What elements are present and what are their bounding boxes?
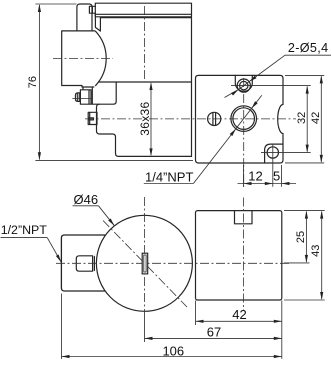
svg-text:32: 32 xyxy=(296,112,308,124)
center slot xyxy=(142,253,148,274)
port axis centerline xyxy=(85,118,296,120)
port flange block xyxy=(196,75,284,163)
dimension 76 xyxy=(27,4,193,160)
dimension 43 xyxy=(284,211,325,300)
svg-text:42: 42 xyxy=(310,112,322,124)
top notch xyxy=(235,211,253,224)
label 2-&#216;5,4 with leader xyxy=(225,41,332,98)
dimension 42 (flange) xyxy=(285,75,324,162)
diagonal centerline xyxy=(103,221,187,308)
svg-text:25: 25 xyxy=(295,231,307,243)
svg-text:67: 67 xyxy=(207,325,221,340)
vertical centerline block xyxy=(243,198,245,312)
1/4 NPT port circle xyxy=(231,106,257,132)
connector block xyxy=(77,4,92,31)
dimension 36x36 xyxy=(138,82,153,156)
valve body 36x36 xyxy=(97,82,192,156)
main vertical centerline (top view) xyxy=(144,6,146,80)
svg-text:Ø46: Ø46 xyxy=(74,192,99,207)
cable connector (front view) xyxy=(61,235,105,291)
mounting hole (2-&#216;5,4) with counterbore xyxy=(231,75,311,92)
dimension 32 xyxy=(296,86,309,153)
dimensions 12 and 5 xyxy=(238,165,297,187)
label 1/2"NPT with leader xyxy=(1,223,62,262)
label 1/4"NPT with leader xyxy=(144,95,262,184)
mounting plate xyxy=(95,3,191,17)
dimension 106 xyxy=(62,294,282,360)
coil housing body xyxy=(97,18,192,157)
lower mounting hole xyxy=(261,144,311,187)
svg-text:2-Ø5,4: 2-Ø5,4 xyxy=(288,41,329,55)
svg-text:12: 12 xyxy=(248,169,262,184)
svg-text:106: 106 xyxy=(162,343,184,358)
svg-text:5: 5 xyxy=(273,169,280,184)
svg-text:1/4”NPT: 1/4”NPT xyxy=(145,169,193,184)
flange hole vertical centerline xyxy=(243,78,245,187)
terminal screw A xyxy=(72,87,99,104)
slotted screw xyxy=(208,112,221,125)
valve block (front view) xyxy=(196,211,282,300)
vertical centerline circle xyxy=(144,197,146,311)
horizontal centerline (front view) xyxy=(56,262,292,264)
svg-text:1/2”NPT: 1/2”NPT xyxy=(1,223,48,237)
dimension 42 (bottom) xyxy=(196,301,282,359)
dimension 25 xyxy=(284,211,310,263)
coil (side) with dome xyxy=(62,31,107,87)
svg-text:42: 42 xyxy=(232,307,246,322)
label &#216;46 with leader xyxy=(73,192,115,226)
svg-text:76: 76 xyxy=(27,76,39,88)
coil circle &#216;46 xyxy=(96,215,192,311)
dimension 67 xyxy=(145,325,282,340)
coil axis centerline xyxy=(53,57,113,59)
svg-text:36x36: 36x36 xyxy=(138,101,152,135)
svg-text:43: 43 xyxy=(310,245,322,257)
connector neck xyxy=(89,6,100,31)
screw B xyxy=(88,112,97,124)
1/2 NPT port xyxy=(76,256,94,271)
